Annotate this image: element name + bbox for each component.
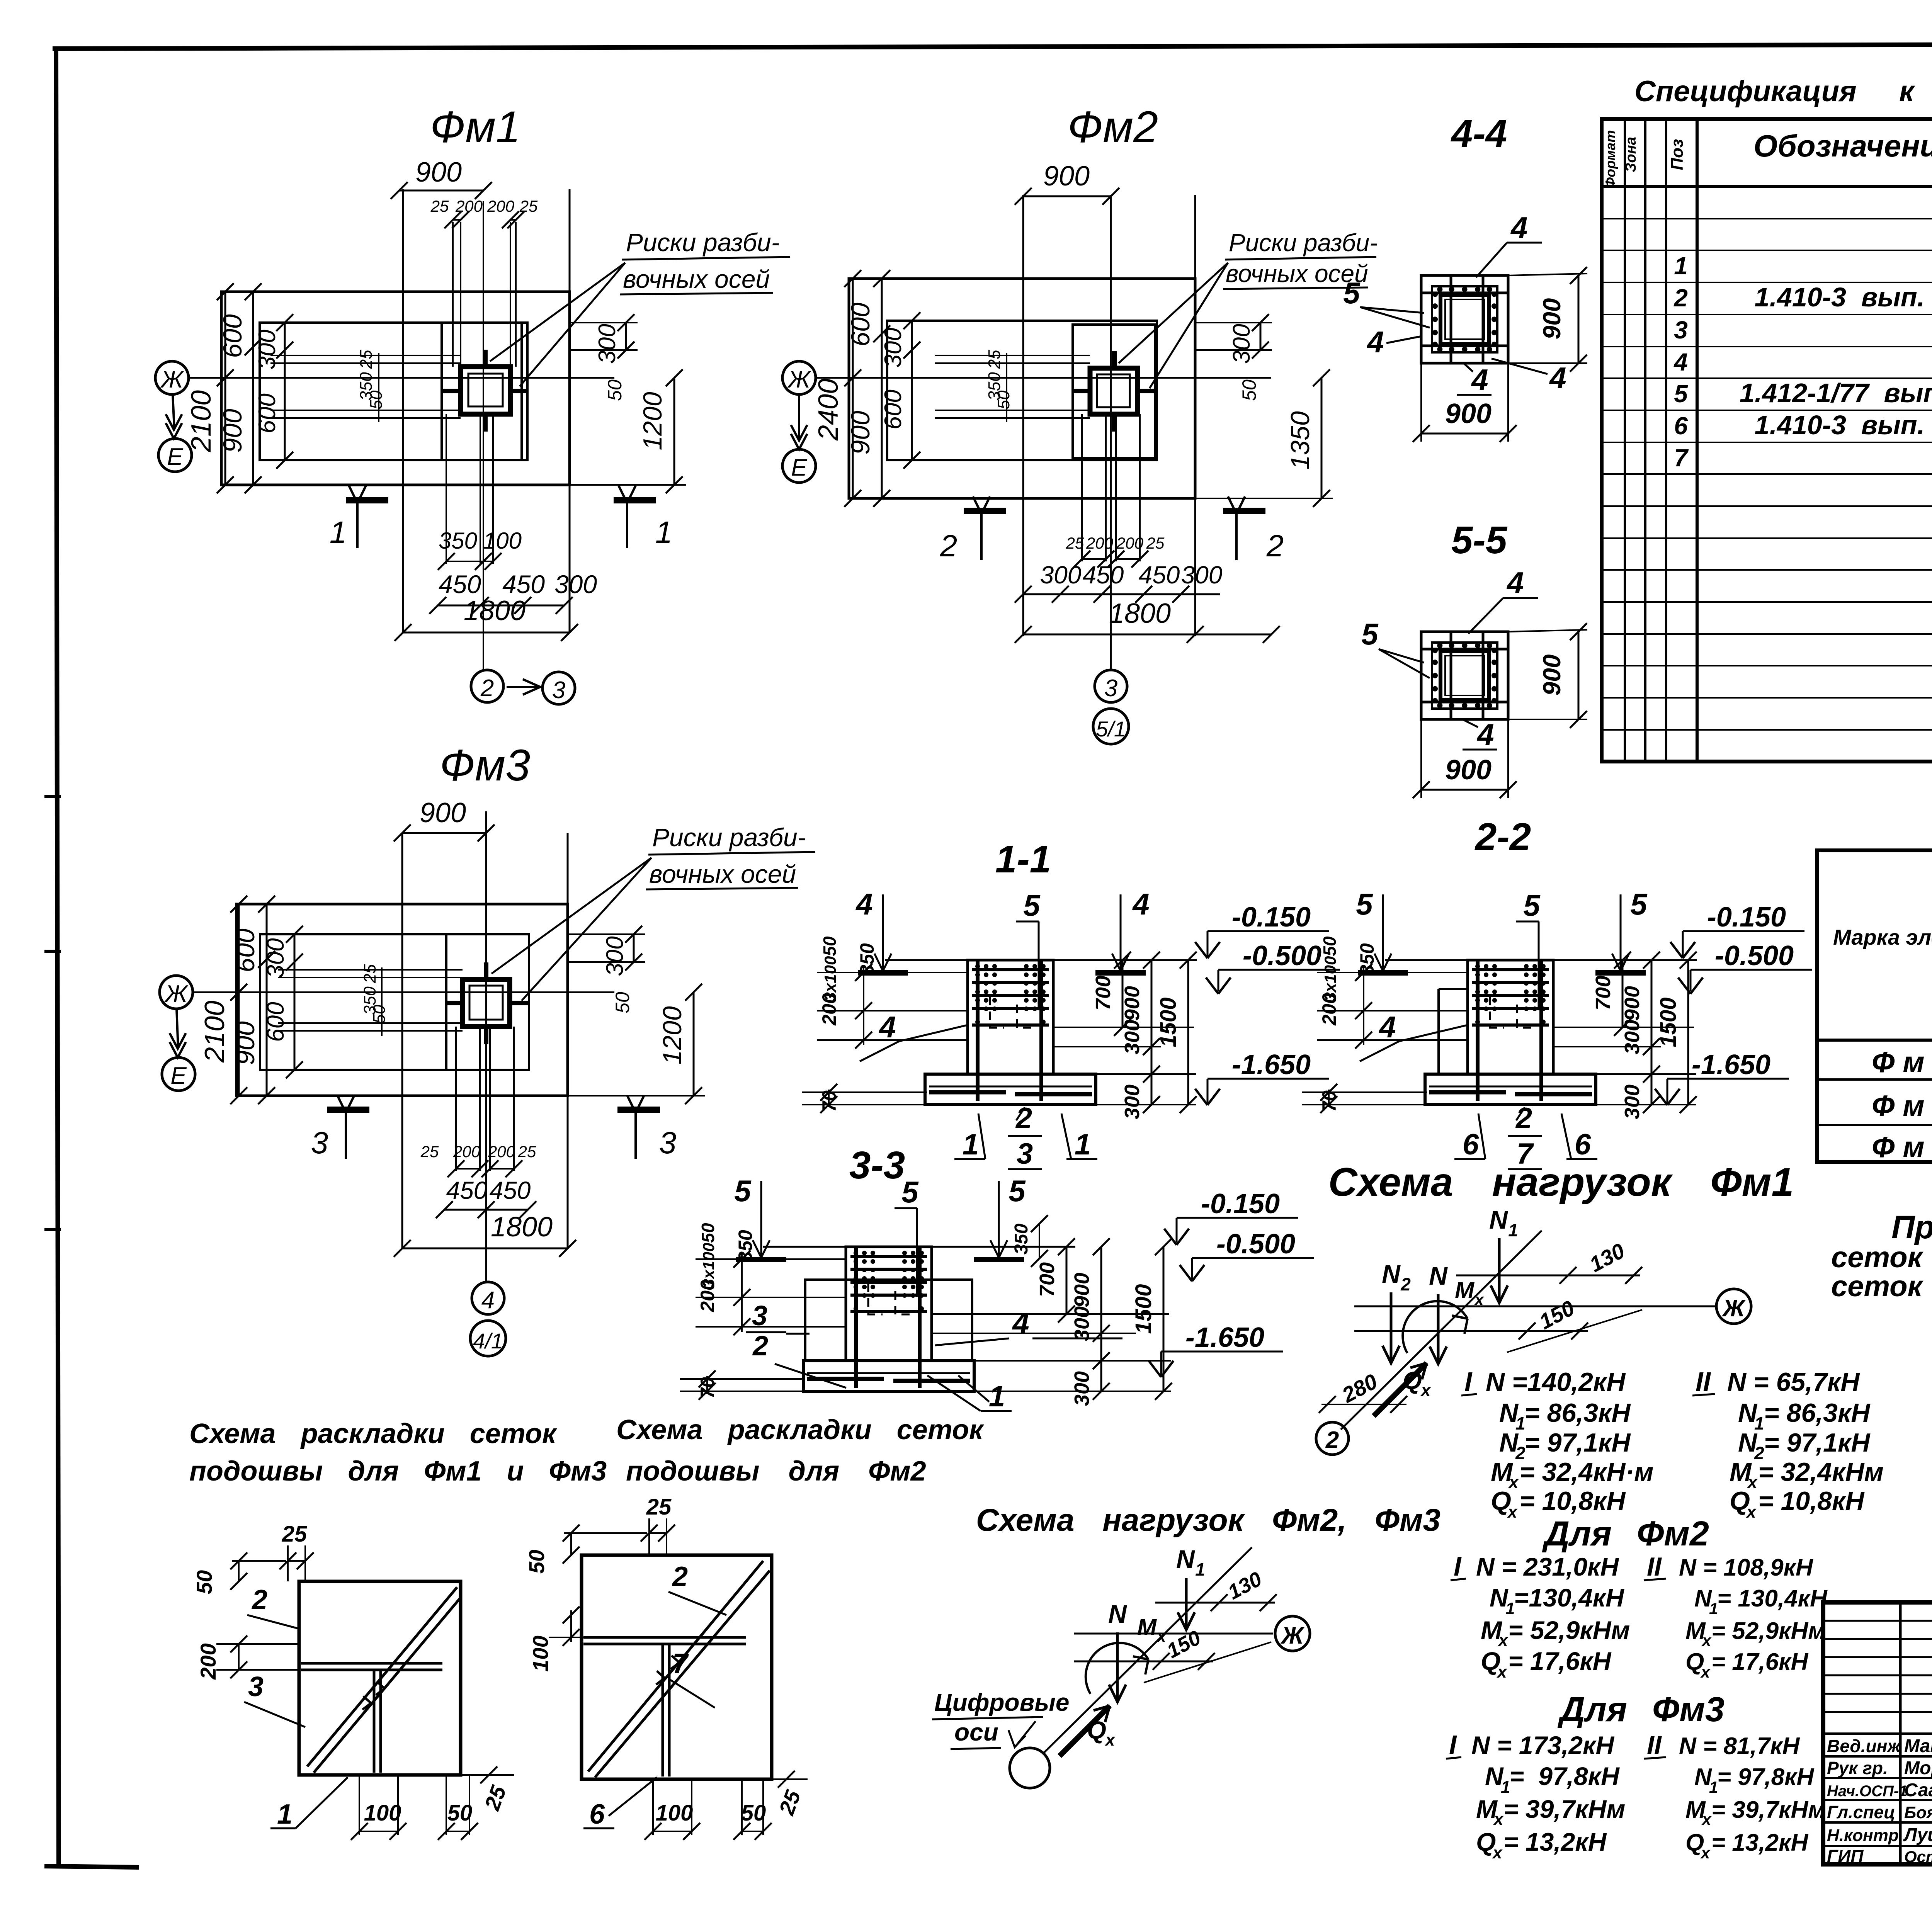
section 2-2 right dim 1500 xyxy=(1687,960,1689,1105)
svg-text:1: 1 xyxy=(1075,1128,1091,1161)
svg-text:4: 4 xyxy=(1510,211,1527,245)
load scheme Фм1 lower line with 150 xyxy=(1354,1330,1588,1332)
svg-text:1: 1 xyxy=(1709,1778,1718,1796)
svg-text:1.410-3 вып. 1: 1.410-3 вып. 1 xyxy=(1755,282,1932,312)
plan Фм2 vertical axis line xyxy=(1110,195,1112,670)
plan Фм2 inner horizontal lines to column xyxy=(935,355,1090,356)
section 3-3 left dim line xyxy=(741,1253,743,1332)
svg-text:900: 900 xyxy=(231,1021,260,1065)
plan Фм2 section mark 2 left xyxy=(964,508,1006,514)
svg-text:Схема раскладки сеток: Схема раскладки сеток xyxy=(616,1414,985,1445)
plan Фм1 right dim 1200 xyxy=(673,378,675,485)
section 1-1 footing xyxy=(925,1074,1096,1105)
svg-text:900: 900 xyxy=(1445,398,1492,429)
svg-text:Цифровые: Цифровые xyxy=(934,1688,1069,1716)
section 2-2 mesh dots xyxy=(1475,964,1480,969)
svg-text:= 32,4кН·м: = 32,4кН·м xyxy=(1519,1457,1653,1487)
section 2-2 arrows to ground xyxy=(1382,894,1384,971)
svg-text:900: 900 xyxy=(1043,161,1090,192)
svg-text:70: 70 xyxy=(697,1377,718,1399)
svg-text:25: 25 xyxy=(357,350,376,369)
svg-text:1: 1 xyxy=(1195,1559,1205,1579)
section 4-4 rebar dots xyxy=(1437,287,1442,292)
plan Фм2 bottom dims 300 450 450 300 xyxy=(1023,593,1220,595)
svg-text:100: 100 xyxy=(483,528,522,554)
svg-text:1: 1 xyxy=(277,1799,293,1830)
plan Фм1 left dim 2100 xyxy=(224,292,226,485)
svg-text:4: 4 xyxy=(855,887,872,921)
plan Фм3 pedestal strip xyxy=(446,934,529,1070)
svg-text:350: 350 xyxy=(856,943,878,976)
plan Фм2 horizontal axis line xyxy=(816,377,1271,379)
svg-text:3: 3 xyxy=(1674,316,1688,344)
plan Фм3 right dim 1200 xyxy=(693,992,695,1096)
svg-text:350: 350 xyxy=(1356,943,1378,976)
section 3-3 ground line xyxy=(763,1246,1075,1248)
svg-text:200: 200 xyxy=(196,1643,220,1680)
load scheme Фм2Фм3 lower line with 150 xyxy=(1074,1661,1213,1663)
svg-text:350: 350 xyxy=(1011,1224,1032,1255)
section 2-2 left extension lines xyxy=(1317,972,1468,973)
section 3-3 mesh dots xyxy=(854,1251,858,1255)
svg-text:1: 1 xyxy=(989,1380,1005,1413)
plan Фм3 axis circle Е xyxy=(162,1057,195,1091)
plan Фм2 axis circle Е xyxy=(782,449,816,483)
load scheme Фм2Фм3 axis circle Ж xyxy=(1275,1616,1310,1651)
svg-text:1800: 1800 xyxy=(1109,598,1171,629)
svg-text:1200: 1200 xyxy=(658,1006,687,1064)
sheet frame bottom-left border piece xyxy=(44,1866,139,1867)
svg-text:=130,4кН: =130,4кН xyxy=(1514,1583,1624,1612)
load scheme Фм2Фм3 main horizontal line to Ж xyxy=(1074,1633,1273,1635)
svg-text:= 13,2кН: = 13,2кН xyxy=(1711,1829,1809,1856)
svg-text:4: 4 xyxy=(1476,717,1494,751)
svg-text:4: 4 xyxy=(878,1010,896,1044)
svg-text:2-2: 2-2 xyxy=(1475,815,1531,858)
svg-text:200: 200 xyxy=(697,1280,718,1312)
svg-text:3-3: 3-3 xyxy=(849,1144,905,1187)
svg-text:Спецификация к фундаментам: Спецификация к фундаментам Фм1 Фн3 xyxy=(1634,75,1932,108)
svg-text:450: 450 xyxy=(446,1176,488,1204)
svg-text:= 13,2кН: = 13,2кН xyxy=(1503,1827,1607,1856)
plan Фм3 axis risk marks xyxy=(484,962,488,981)
plan Фм1 left dims 300 600 xyxy=(284,323,286,460)
plan Фм2 bottom dim 1800 xyxy=(1023,634,1271,636)
svg-text:200: 200 xyxy=(455,197,483,215)
svg-text:1.410-3 вып. 1: 1.410-3 вып. 1 xyxy=(1755,410,1932,440)
section 1-1 left dim line xyxy=(863,966,864,1045)
svg-text:900: 900 xyxy=(1121,986,1144,1021)
svg-text:x: x xyxy=(1492,1843,1503,1862)
svg-text:-0.150: -0.150 xyxy=(1201,1188,1280,1219)
svg-text:4-4: 4-4 xyxy=(1451,112,1507,155)
section 2-2 footing mesh bars xyxy=(1429,1090,1506,1095)
load scheme Фм2Фм3 leader arrow to circle xyxy=(1015,1721,1036,1746)
svg-text:100: 100 xyxy=(528,1635,553,1671)
section 1-1 footing mesh bars xyxy=(929,1090,1006,1095)
svg-text:-0.500: -0.500 xyxy=(1243,940,1321,971)
svg-text:450: 450 xyxy=(490,1176,531,1204)
svg-text:Ж: Ж xyxy=(1280,1622,1305,1649)
svg-text:200: 200 xyxy=(487,197,515,215)
load scheme Фм2Фм3 axis circle empty xyxy=(1010,1748,1050,1788)
mesh scheme Фм2 square xyxy=(582,1555,772,1779)
plan Фм2 axis arrow xyxy=(798,394,800,440)
svg-text:300: 300 xyxy=(880,328,906,367)
svg-text:x: x xyxy=(1474,1290,1484,1309)
svg-text:3: 3 xyxy=(248,1671,264,1702)
plan Фм2 pedestal strip xyxy=(1073,325,1155,458)
svg-text:50: 50 xyxy=(1238,379,1260,401)
svg-text:N: N xyxy=(1108,1600,1127,1628)
section 3-3 ground marks xyxy=(736,1257,786,1262)
svg-text:N = 81,7кН: N = 81,7кН xyxy=(1679,1733,1800,1759)
load scheme Фм1 main horizontal line to Ж xyxy=(1354,1306,1715,1307)
svg-text:25: 25 xyxy=(430,197,449,215)
svg-text:сеток срезать.: сеток срезать. xyxy=(1831,1270,1932,1303)
svg-text:= 86,3кН: = 86,3кН xyxy=(1764,1398,1871,1428)
plan Фм3 bottom axis circle 4 xyxy=(472,1282,504,1314)
svg-text:Обозначение: Обозначение xyxy=(1753,129,1932,163)
svg-text:2: 2 xyxy=(251,1584,267,1615)
svg-text:4: 4 xyxy=(1378,1010,1396,1044)
svg-text:50: 50 xyxy=(447,1800,473,1826)
plan Фм1 inner step rect xyxy=(260,323,522,460)
svg-text:450: 450 xyxy=(1139,561,1180,589)
svg-text:1: 1 xyxy=(1508,1220,1518,1240)
svg-text:Н.контр: Н.контр xyxy=(1827,1826,1899,1845)
plan Фм1 inner horizontal lines to column xyxy=(270,355,461,356)
svg-text:N: N xyxy=(1489,1205,1508,1234)
load scheme Фм1 dim 280 on diagonal xyxy=(1321,1404,1406,1405)
svg-text:1350: 1350 xyxy=(1286,411,1315,469)
svg-text:300: 300 xyxy=(554,570,597,598)
svg-text:Поз: Поз xyxy=(1668,139,1687,170)
svg-text:I: I xyxy=(1464,1367,1473,1397)
mesh scheme Фм1Фм3 square xyxy=(299,1581,461,1775)
plan Фм2 left dims 600 900 xyxy=(881,279,883,498)
svg-text:3: 3 xyxy=(552,677,565,704)
svg-text:Риски разби-: Риски разби- xyxy=(626,228,780,257)
svg-text:4: 4 xyxy=(1549,361,1566,395)
plan Фм3 top dim 900 xyxy=(402,832,486,834)
svg-text:Риски разби-: Риски разби- xyxy=(652,823,806,852)
svg-text:900: 900 xyxy=(1538,298,1566,340)
svg-text:I: I xyxy=(1449,1730,1457,1760)
section 1-1 top mesh horizontal bars xyxy=(972,968,1049,971)
plan Фм1 leader lines to risks xyxy=(490,263,625,361)
plan Фм1 axis circle Ж xyxy=(155,361,189,394)
plan Фм3 left dim 2100 xyxy=(238,904,240,1096)
sheet frame top border xyxy=(53,43,1932,49)
svg-text:600: 600 xyxy=(262,1002,289,1042)
plan Фм2 left dims 300 600 xyxy=(911,321,913,460)
section 4-4 outer square xyxy=(1421,275,1508,363)
svg-text:2100: 2100 xyxy=(186,390,217,452)
svg-text:25: 25 xyxy=(646,1494,672,1520)
title block outer border xyxy=(1823,1602,1932,1864)
svg-text:-0.500: -0.500 xyxy=(1715,940,1794,971)
svg-text:Риски разби-: Риски разби- xyxy=(1229,229,1378,257)
svg-text:700: 700 xyxy=(1092,976,1115,1010)
section 1-1 ground marks xyxy=(858,970,908,976)
svg-text:Рук гр.: Рук гр. xyxy=(1827,1758,1888,1778)
section 4-4 mesh frame xyxy=(1432,286,1497,352)
svg-text:3: 3 xyxy=(1104,675,1117,702)
svg-text:1500: 1500 xyxy=(1131,1284,1156,1334)
fold mark left 3 xyxy=(44,1228,61,1231)
svg-text:450: 450 xyxy=(1083,561,1124,589)
svg-text:7: 7 xyxy=(672,1648,689,1679)
svg-text:300: 300 xyxy=(1121,1020,1144,1054)
section 5-5 horizontal mesh bars xyxy=(1421,648,1508,651)
svg-text:350: 350 xyxy=(439,528,477,554)
svg-text:x: x xyxy=(1156,1627,1167,1646)
plan Фм1 long extension line right of band xyxy=(569,189,571,632)
plan Фм3 bottom dim 1800 xyxy=(402,1248,568,1249)
section 2-2 top mesh horizontal bars xyxy=(1472,968,1549,971)
plan Фм2 extension line right of band xyxy=(1194,195,1196,636)
svg-text:-1.650: -1.650 xyxy=(1692,1049,1770,1080)
plan Фм3 bottom axis circle 4/1 xyxy=(470,1321,506,1356)
svg-text:При установке в опалубку верти: При установке в опалубку вертикальных xyxy=(1891,1209,1932,1245)
svg-text:= 32,4кНм: = 32,4кНм xyxy=(1758,1457,1884,1487)
svg-text:Схема нагрузок Фм2, Фм3: Схема нагрузок Фм2, Фм3 xyxy=(976,1503,1440,1538)
svg-text:300: 300 xyxy=(1181,561,1223,589)
svg-text:2: 2 xyxy=(752,1331,768,1362)
svg-text:= 39,7кНм: = 39,7кНм xyxy=(1711,1797,1826,1823)
section 3-3 footing mesh bars xyxy=(807,1377,884,1381)
section 2-2 pedestal xyxy=(1468,960,1553,1074)
svg-text:5: 5 xyxy=(1023,888,1041,922)
svg-text:N: N xyxy=(1429,1261,1448,1290)
plan Фм2 bottom axis circle 3 xyxy=(1095,670,1127,702)
svg-text:100: 100 xyxy=(656,1800,693,1826)
svg-text:Ф м 3: Ф м 3 xyxy=(1872,1131,1932,1164)
svg-text:3: 3 xyxy=(1017,1137,1033,1170)
svg-text:подошвы для Фм2: подошвы для Фм2 xyxy=(626,1456,926,1487)
svg-text:Е: Е xyxy=(170,1062,187,1089)
plan Фм1 axis risk marks xyxy=(483,350,488,368)
svg-text:Схема нагрузок Фм1: Схема нагрузок Фм1 xyxy=(1328,1160,1794,1205)
section 3-3 right dim 1500 xyxy=(1163,1247,1165,1391)
svg-text:4: 4 xyxy=(1132,887,1149,921)
svg-text:вочных осей: вочных осей xyxy=(623,265,770,293)
svg-text:5: 5 xyxy=(1356,887,1373,921)
section 3-3 arrows to ground xyxy=(760,1181,762,1258)
svg-text:x: x xyxy=(1700,1663,1711,1681)
svg-text:4: 4 xyxy=(1673,348,1688,376)
svg-text:2400: 2400 xyxy=(813,379,844,441)
svg-text:300: 300 xyxy=(262,938,289,978)
svg-text:1: 1 xyxy=(1505,1599,1515,1618)
plan Фм2 inner step rect xyxy=(887,321,1157,460)
section 5-5 inner core square xyxy=(1440,651,1489,700)
svg-text:5: 5 xyxy=(1674,380,1688,408)
svg-text:50: 50 xyxy=(1320,936,1340,956)
section 2-2 ground line xyxy=(1385,959,1697,961)
svg-text:4: 4 xyxy=(1366,325,1384,359)
plan Фм3 horizontal axis line xyxy=(193,991,614,993)
svg-text:200: 200 xyxy=(1318,993,1340,1026)
plan Фм3 vertical axis line xyxy=(485,811,487,1282)
section 2-2 vertical rebar xyxy=(1476,961,1480,1101)
plan Фм1 vertical axis line xyxy=(483,201,484,670)
svg-text:Фм1: Фм1 xyxy=(430,102,520,152)
plan Фм3 inner horizontal lines to column xyxy=(278,969,463,971)
svg-text:I: I xyxy=(1454,1551,1462,1581)
svg-text:Зона: Зона xyxy=(1623,137,1639,172)
plan Фм3 section mark 3 right xyxy=(617,1107,660,1113)
svg-text:900: 900 xyxy=(1070,1273,1094,1307)
svg-text:Моргунов: Моргунов xyxy=(1904,1758,1932,1778)
section 4-4 right dim 900 xyxy=(1578,275,1580,363)
svg-text:600: 600 xyxy=(218,314,247,358)
svg-text:25: 25 xyxy=(361,964,379,983)
svg-text:II: II xyxy=(1647,1731,1662,1760)
svg-text:Ф м 1: Ф м 1 xyxy=(1872,1046,1932,1079)
svg-text:ГИП: ГИП xyxy=(1827,1846,1864,1866)
svg-text:200: 200 xyxy=(1086,534,1114,552)
section 5-5 vertical mesh bars xyxy=(1450,632,1452,719)
svg-text:1: 1 xyxy=(655,515,673,549)
plan Фм2 bottom small dims 25 200 200 25 xyxy=(1082,558,1106,560)
section 1-1 pedestal xyxy=(968,960,1053,1074)
svg-text:Схема раскладки сеток: Схема раскладки сеток xyxy=(189,1418,558,1449)
plan Фм1 top small dims 25 200 200 25 xyxy=(453,219,461,221)
plan Фм1 pedestal strip xyxy=(442,323,527,460)
plan Фм1 section mark 1 right xyxy=(614,497,656,503)
svg-text:200: 200 xyxy=(488,1142,515,1161)
svg-text:= 52,9кНм: = 52,9кНм xyxy=(1711,1618,1826,1644)
svg-text:200: 200 xyxy=(453,1142,481,1161)
plan Фм2 extension line left of band xyxy=(1022,195,1024,636)
section 3-3 dashed hooks xyxy=(868,1283,883,1314)
svg-text:Бояриченко: Бояриченко xyxy=(1904,1803,1932,1822)
svg-text:1.412-1/77 вып. 3: 1.412-1/77 вып. 3 xyxy=(1740,378,1932,408)
svg-text:50: 50 xyxy=(994,390,1013,409)
svg-text:x: x xyxy=(1493,1810,1504,1829)
section 2-2 left dim line xyxy=(1363,966,1364,1045)
svg-text:= 86,3кН: = 86,3кН xyxy=(1524,1398,1631,1428)
svg-text:N = 108,9кН: N = 108,9кН xyxy=(1679,1554,1813,1581)
plan Фм1 bottom axis circle 3 xyxy=(543,672,575,704)
svg-text:50: 50 xyxy=(524,1550,549,1574)
plan Фм1 outer footing rect xyxy=(221,292,570,485)
svg-text:x: x xyxy=(1746,1503,1757,1521)
svg-text:5/1: 5/1 xyxy=(1096,717,1126,741)
svg-text:25: 25 xyxy=(1146,534,1165,552)
svg-text:5: 5 xyxy=(1630,887,1648,921)
svg-text:5-5: 5-5 xyxy=(1451,518,1508,562)
svg-text:вочных осей: вочных осей xyxy=(649,860,796,888)
plan Фм3 section mark 3 left xyxy=(327,1107,369,1113)
svg-text:II: II xyxy=(1647,1552,1662,1581)
fold mark left 1 xyxy=(44,795,61,798)
title block left grid rows upper xyxy=(1823,1620,1932,1622)
svg-text:N = 65,7кН: N = 65,7кН xyxy=(1727,1367,1860,1397)
spec table body horizontal lines xyxy=(1602,218,1932,219)
svg-text:4: 4 xyxy=(481,1287,495,1314)
svg-text:7: 7 xyxy=(1674,444,1689,472)
svg-text:300: 300 xyxy=(1040,561,1082,589)
plan Фм2 column square xyxy=(1090,368,1138,414)
section 5-5 bottom dim 900 xyxy=(1421,789,1508,791)
section 1-1 ground line xyxy=(885,959,1197,961)
svg-text:-1.650: -1.650 xyxy=(1232,1049,1311,1080)
svg-text:900: 900 xyxy=(1621,986,1644,1021)
svg-text:5: 5 xyxy=(1343,276,1361,310)
svg-text:= 17,6кН: = 17,6кН xyxy=(1508,1647,1612,1675)
svg-text:300: 300 xyxy=(1070,1306,1094,1341)
plan Фм3 axis circle Ж xyxy=(160,976,193,1009)
section 3-3 right dim 900 300 300 xyxy=(1100,1247,1102,1391)
svg-text:Формат: Формат xyxy=(1602,130,1618,188)
svg-text:900: 900 xyxy=(1538,654,1566,696)
svg-text:900: 900 xyxy=(415,157,462,188)
svg-text:1: 1 xyxy=(330,515,347,549)
svg-text:Для Фм3: Для Фм3 xyxy=(1557,1690,1725,1729)
sheet frame left border xyxy=(56,49,59,1866)
svg-text:1: 1 xyxy=(1709,1600,1718,1618)
svg-text:3: 3 xyxy=(752,1300,767,1331)
plan Фм3 bottom dims 450 450 xyxy=(444,1209,528,1211)
plan Фм2 left dim 2400 xyxy=(852,279,854,498)
svg-text:5: 5 xyxy=(901,1175,919,1209)
section 5-5 rebar dots xyxy=(1437,643,1442,648)
svg-text:5: 5 xyxy=(1361,617,1379,651)
plan Фм2 section mark 2 right xyxy=(1223,508,1265,514)
section 1-1 dashed hooks xyxy=(990,997,1004,1028)
plan Фм3 inner step rect xyxy=(260,934,529,1070)
section 2-2 right dim 900 300 300 xyxy=(1651,960,1653,1105)
svg-text:Ж: Ж xyxy=(787,366,811,393)
svg-text:70: 70 xyxy=(818,1090,840,1112)
svg-text:100: 100 xyxy=(364,1800,401,1826)
load scheme Фм2Фм3 upper line with 130 xyxy=(1155,1602,1275,1604)
svg-text:Нач.ОСП-1: Нач.ОСП-1 xyxy=(1827,1783,1907,1800)
section 1-1 left extension lines xyxy=(817,972,968,973)
section 4-4 horizontal mesh bars xyxy=(1421,292,1508,294)
svg-text:x: x xyxy=(1507,1503,1518,1521)
section 2-2 right dim 700 xyxy=(1622,960,1624,1027)
title block name rows xyxy=(1823,1732,1932,1735)
section 3-3 step rect xyxy=(805,1280,972,1361)
plan Фм3 outer footing rect xyxy=(236,904,568,1096)
spec table outer border xyxy=(1602,119,1932,762)
svg-text:900: 900 xyxy=(420,797,466,828)
svg-text:50: 50 xyxy=(698,1223,718,1243)
section 1-1 right extension lines xyxy=(1053,1027,1194,1028)
svg-text:Осташевский: Осташевский xyxy=(1904,1848,1932,1866)
plan Фм3 extension line left of band xyxy=(401,833,403,1248)
section 4-4 bottom dim 900 xyxy=(1421,433,1508,435)
svg-text:= 17,6кН: = 17,6кН xyxy=(1711,1649,1809,1675)
svg-text:50: 50 xyxy=(741,1800,766,1826)
svg-text:Фм2: Фм2 xyxy=(1068,102,1158,152)
svg-text:x: x xyxy=(1701,1631,1712,1649)
plan Фм2 leader lines to risks xyxy=(1119,263,1228,363)
section 1-1 mesh dots xyxy=(975,964,980,969)
svg-text:N: N xyxy=(1176,1545,1195,1573)
section 2-2 footing xyxy=(1425,1074,1596,1105)
svg-text:5: 5 xyxy=(1009,1174,1026,1208)
svg-text:Луценко: Луценко xyxy=(1903,1825,1932,1845)
svg-text:2: 2 xyxy=(1673,284,1688,312)
load scheme Фм1 diagonal axis 2 xyxy=(1341,1231,1542,1430)
svg-text:N =140,2кН: N =140,2кН xyxy=(1486,1367,1626,1397)
plan Фм3 left dims 300 600 xyxy=(294,934,296,1070)
